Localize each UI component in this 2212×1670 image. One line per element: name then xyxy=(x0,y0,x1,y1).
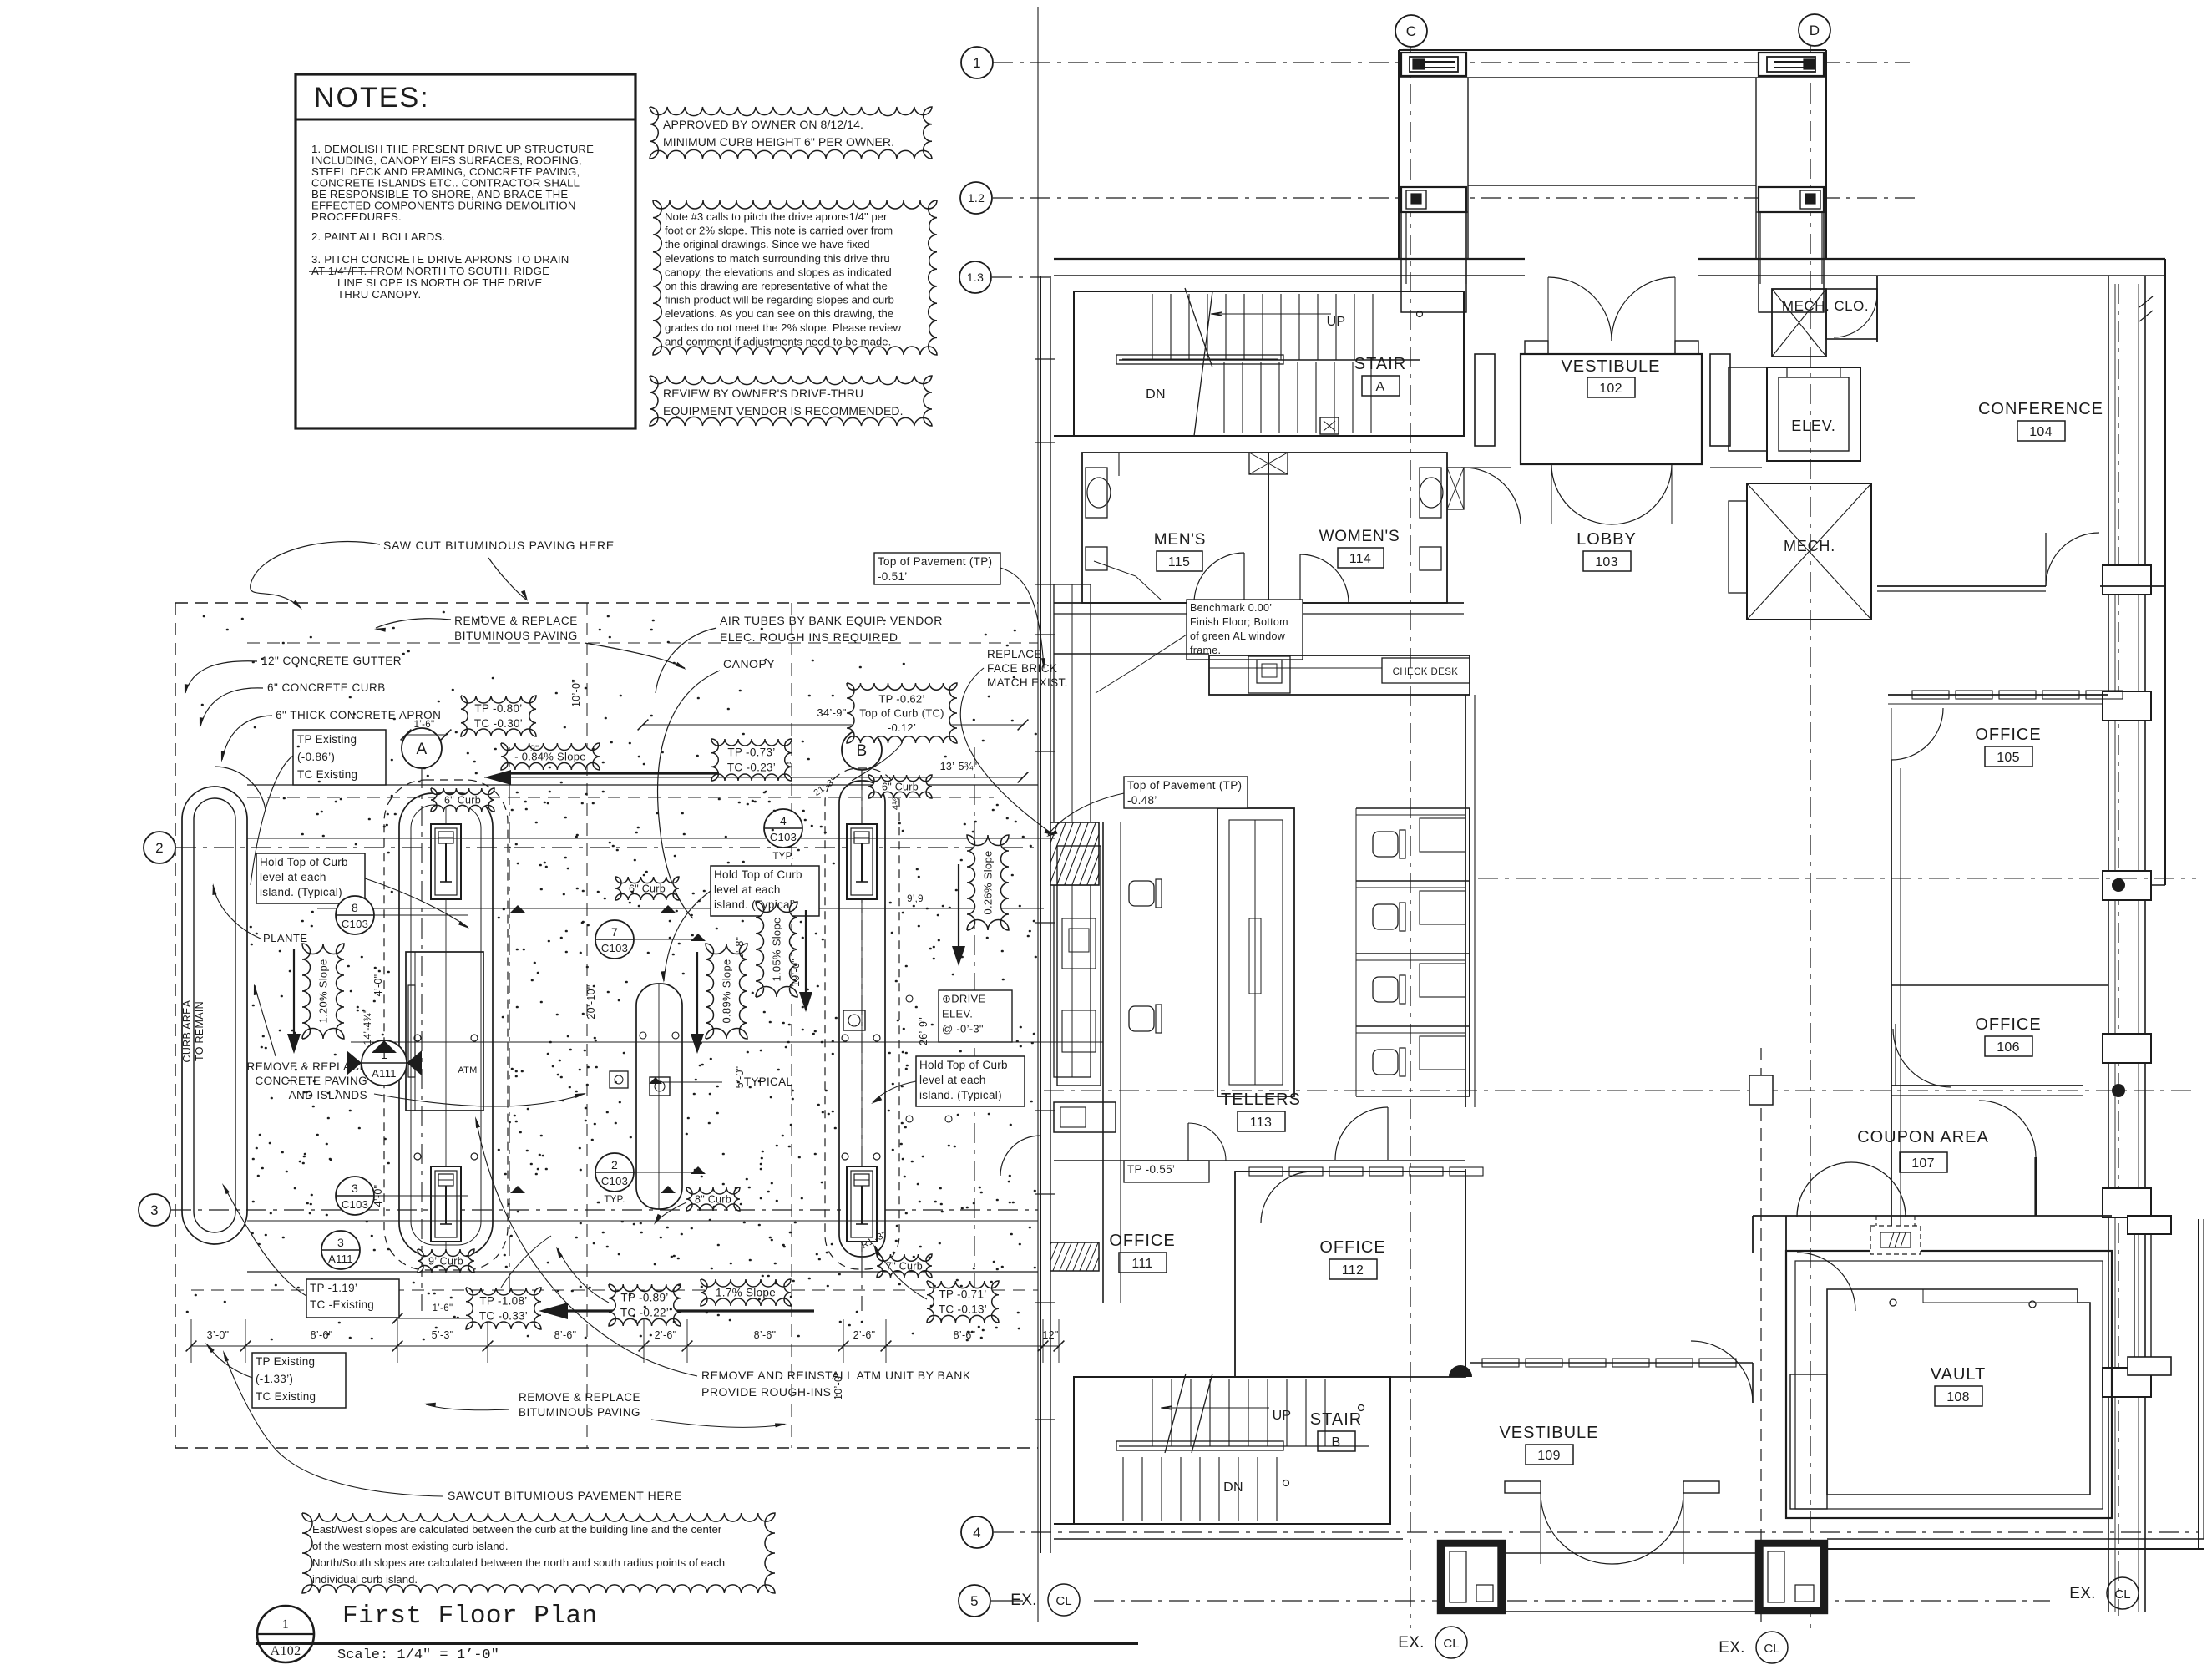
svg-text:frame.: frame. xyxy=(1190,645,1221,656)
svg-text:EX.: EX. xyxy=(1398,1634,1425,1652)
stair B room walls xyxy=(1074,1377,1390,1524)
west storefront wall xyxy=(1040,276,1041,1553)
vault left nook xyxy=(1790,1374,1827,1509)
svg-text:TC -0.13’: TC -0.13’ xyxy=(939,1303,987,1316)
vestibule 102 south doors xyxy=(1551,464,1612,524)
reference marker 2-C103 xyxy=(595,1153,634,1192)
svg-text:9’ Curb: 9’ Curb xyxy=(428,1255,463,1267)
svg-text:TP -0.71’: TP -0.71’ xyxy=(939,1288,986,1301)
second dashed line top xyxy=(247,642,1038,644)
svg-text:Hold Top of Curb: Hold Top of Curb xyxy=(714,868,802,881)
svg-text:B: B xyxy=(1332,1435,1341,1450)
dimension 1-6 island top xyxy=(406,734,446,736)
office 111 door xyxy=(1187,1123,1189,1161)
svg-text:C103: C103 xyxy=(770,831,797,843)
svg-text:level at each: level at each xyxy=(714,883,781,896)
grid line 4 xyxy=(994,1531,2199,1533)
svg-text:-0.51’: -0.51’ xyxy=(878,570,908,583)
svg-text:34’-9": 34’-9" xyxy=(817,706,846,719)
svg-text:112: 112 xyxy=(1342,1263,1364,1278)
small flag markers xyxy=(510,905,525,913)
svg-text:2: 2 xyxy=(611,1158,618,1172)
svg-text:TO REMAIN: TO REMAIN xyxy=(194,1001,205,1061)
office 105 door xyxy=(1891,708,1943,760)
svg-text:ELEV.: ELEV. xyxy=(942,1007,973,1020)
svg-text:4: 4 xyxy=(973,1525,981,1541)
svg-text:EQUIPMENT VENDOR IS RECOMMENDE: EQUIPMENT VENDOR IS RECOMMENDED. xyxy=(663,404,904,417)
tp -071 cloud xyxy=(927,1281,999,1323)
svg-text:(-0.86’): (-0.86’) xyxy=(297,751,335,763)
island A bollard north xyxy=(431,824,461,899)
canopy pier C1 xyxy=(1401,53,1466,76)
grid bubble D xyxy=(1799,14,1830,46)
svg-text:TP Existing: TP Existing xyxy=(256,1355,315,1368)
vault inner chamber xyxy=(1827,1289,2090,1495)
svg-text:108: 108 xyxy=(1946,1390,1970,1404)
svg-text:on this drawing are representa: on this drawing are representative of wh… xyxy=(665,280,888,292)
svg-text:6" Curb: 6" Curb xyxy=(444,794,481,806)
svg-text:EX.: EX. xyxy=(1010,1592,1037,1609)
grid line 3 xyxy=(171,1209,1038,1211)
dimension 34-9 xyxy=(643,724,1023,726)
svg-text:4: 4 xyxy=(780,814,787,827)
tp -080 cloud xyxy=(461,696,536,736)
svg-text:2’-6": 2’-6" xyxy=(655,1329,677,1341)
svg-text:13’-5¾": 13’-5¾" xyxy=(940,761,978,772)
svg-text:CL: CL xyxy=(1443,1637,1459,1651)
stair hall door xyxy=(1464,468,1521,524)
canopy pier C2 xyxy=(1401,187,1466,212)
svg-text:TC -0.23’: TC -0.23’ xyxy=(727,762,776,774)
svg-text:C103: C103 xyxy=(601,1175,628,1187)
6 curb cloud island A xyxy=(431,788,494,812)
slope cloud 105 rotated xyxy=(756,902,797,997)
svg-text:1.7% Slope: 1.7% Slope xyxy=(716,1287,776,1299)
west wall window frames xyxy=(1054,584,1091,822)
svg-text:MEN'S: MEN'S xyxy=(1154,531,1207,549)
island A bollard south xyxy=(431,1166,461,1242)
island B bollard north xyxy=(847,824,877,899)
7 curb cloud xyxy=(877,1254,932,1278)
svg-text:UP: UP xyxy=(1327,315,1346,329)
svg-text:A: A xyxy=(1376,380,1385,394)
svg-text:-0.48’: -0.48’ xyxy=(1127,794,1157,807)
svg-text:7: 7 xyxy=(611,925,618,939)
svg-text:TC -0.33’: TC -0.33’ xyxy=(479,1310,528,1323)
svg-text:PROCEEDURES.: PROCEEDURES. xyxy=(311,210,402,223)
svg-text:AIR TUBES BY BANK EQUIP. VENDO: AIR TUBES BY BANK EQUIP. VENDOR xyxy=(720,614,943,627)
svg-text:3’-0": 3’-0" xyxy=(207,1329,230,1341)
grid line 5 xyxy=(991,1600,1023,1602)
9 curb cloud xyxy=(418,1249,474,1273)
coupon east door leaf xyxy=(2034,1157,2037,1216)
hold top of curb box 3 xyxy=(916,1056,1025,1106)
tellers south partition xyxy=(1054,1160,1465,1161)
lobby west closet walls xyxy=(1729,367,1767,451)
svg-text:STAIR: STAIR xyxy=(1310,1410,1362,1429)
svg-text:6" Curb: 6" Curb xyxy=(882,781,919,792)
svg-text:EX.: EX. xyxy=(2069,1585,2096,1602)
island A centerline xyxy=(445,793,447,1257)
svg-text:@ -0’-3": @ -0’-3" xyxy=(942,1022,984,1035)
centerline through offices xyxy=(1478,878,2196,879)
svg-text:5: 5 xyxy=(970,1593,979,1609)
lobby south wall / check desk counter xyxy=(1054,653,1209,655)
svg-text:canopy, the elevations and slo: canopy, the elevations and slopes as ind… xyxy=(665,266,892,278)
stair B rail xyxy=(1116,1441,1283,1450)
svg-text:BITUMINOUS PAVING: BITUMINOUS PAVING xyxy=(454,630,578,642)
svg-text:VESTIBULE: VESTIBULE xyxy=(1499,1424,1598,1442)
grid bubble 4 xyxy=(961,1516,993,1548)
svg-text:Hold Top of Curb: Hold Top of Curb xyxy=(919,1059,1008,1071)
east band pier dots xyxy=(2112,878,2125,892)
column line A vertical xyxy=(421,768,423,1311)
svg-text:6" Curb: 6" Curb xyxy=(629,883,666,894)
slope arrow 120 xyxy=(293,949,295,1044)
canopy pier D1 xyxy=(1759,53,1824,76)
svg-text:AND ISLANDS: AND ISLANDS xyxy=(289,1089,367,1101)
dimension 24-9 slope arrow xyxy=(484,777,1023,778)
svg-text:level at each: level at each xyxy=(919,1074,986,1086)
grid line 1 xyxy=(993,62,1910,63)
svg-text:26’-9": 26’-9" xyxy=(918,1017,929,1045)
svg-text:CL: CL xyxy=(1764,1642,1779,1656)
svg-text:REPLACE: REPLACE xyxy=(987,648,1042,660)
office 106 south wall xyxy=(1891,1085,2083,1086)
island B curb xyxy=(839,781,885,1257)
svg-text:103: 103 xyxy=(1595,555,1618,569)
vestibule 109 south wall doors xyxy=(1505,1481,1541,1493)
svg-text:12": 12" xyxy=(1042,1329,1058,1341)
column line B vertical xyxy=(861,770,863,1311)
remote unit square xyxy=(843,1010,865,1030)
dimension 1-6 bottom xyxy=(397,1318,488,1319)
svg-text:TYP.: TYP. xyxy=(772,852,793,862)
island B dots xyxy=(842,1035,848,1041)
svg-text:TP -1.19’: TP -1.19’ xyxy=(310,1282,357,1294)
svg-text:PROVIDE ROUGH-INS .: PROVIDE ROUGH-INS . xyxy=(701,1385,838,1399)
grid bubble 2 xyxy=(144,832,175,863)
6 curb cloud island B xyxy=(868,775,932,798)
TP -0.55 annotation xyxy=(1124,1161,1209,1182)
svg-text:TC -0.30’: TC -0.30’ xyxy=(474,717,523,730)
grid line 2 xyxy=(176,847,1038,848)
svg-text:COUPON AREA: COUPON AREA xyxy=(1857,1128,1989,1146)
svg-text:1: 1 xyxy=(973,55,981,71)
apron bottom edge xyxy=(247,1271,1038,1273)
svg-text:THRU CANOPY.: THRU CANOPY. xyxy=(337,288,421,301)
svg-text:A111: A111 xyxy=(328,1252,353,1265)
lobby door to tellers xyxy=(1335,1107,1388,1160)
conference south wall xyxy=(1877,585,2046,587)
svg-text:ELEC. ROUGH INS REQUIRED: ELEC. ROUGH INS REQUIRED xyxy=(720,630,898,644)
svg-text:grades do not meet the 2% slop: grades do not meet the 2% slope. Please … xyxy=(665,321,901,334)
svg-text:First Floor Plan: First Floor Plan xyxy=(342,1602,598,1631)
svg-text:TELLERS: TELLERS xyxy=(1221,1091,1301,1109)
vault interior dots xyxy=(1890,1299,1896,1306)
island row line atm xyxy=(351,1041,1103,1043)
grid bubble C xyxy=(1395,15,1427,47)
svg-text:Finish Floor; Bottom: Finish Floor; Bottom xyxy=(1190,616,1288,628)
svg-text:9’,9: 9’,9 xyxy=(907,894,924,904)
svg-text:A111: A111 xyxy=(372,1067,397,1080)
tp existing -133 box xyxy=(252,1353,346,1408)
canopy dash outline xyxy=(509,747,510,1301)
restroom walls xyxy=(1082,453,1268,603)
canopy pier D2 xyxy=(1759,187,1824,212)
svg-text:East/West slopes are calculate: East/West slopes are calculated between … xyxy=(312,1523,722,1536)
svg-text:10’-0": 10’-0" xyxy=(570,679,582,707)
svg-text:CHECK DESK: CHECK DESK xyxy=(1393,667,1459,677)
svg-text:-0.12’: -0.12’ xyxy=(888,721,916,734)
apron top edge xyxy=(247,784,1038,786)
review-by-vendor cloud note xyxy=(650,376,932,426)
svg-text:C: C xyxy=(1406,23,1417,39)
svg-text:Benchmark 0.00’: Benchmark 0.00’ xyxy=(1190,602,1272,614)
mens fixtures xyxy=(1086,468,1107,518)
grid line D vertical xyxy=(1810,46,1811,1628)
grid bubble B xyxy=(842,730,882,770)
vault outer walls xyxy=(1786,1251,2112,1518)
svg-text:111: 111 xyxy=(1131,1257,1152,1271)
south east wing wall xyxy=(1827,1538,2204,1540)
svg-text:113: 113 xyxy=(1250,1116,1272,1130)
svg-text:8’-6": 8’-6" xyxy=(554,1329,577,1341)
svg-text:Scale: 1/4" = 1’-0": Scale: 1/4" = 1’-0" xyxy=(337,1647,499,1663)
mens door xyxy=(1194,553,1244,603)
svg-text:0.89% Slope: 0.89% Slope xyxy=(721,959,733,1023)
svg-text:12" CONCRETE GUTTER: 12" CONCRETE GUTTER xyxy=(261,655,402,667)
island B dashed removal outline xyxy=(825,768,899,1269)
svg-text:3. PITCH CONCRETE DRIVE APRONS: 3. PITCH CONCRETE DRIVE APRONS TO DRAIN xyxy=(311,253,569,266)
svg-text:OFFICE: OFFICE xyxy=(1109,1232,1175,1250)
south entrance threshold xyxy=(1505,1552,1756,1554)
svg-text:A102: A102 xyxy=(271,1644,301,1658)
reference marker 7-C103 xyxy=(595,920,634,959)
svg-text:114: 114 xyxy=(1349,552,1371,566)
stair A treads lower xyxy=(1223,362,1225,433)
vestibule 102 north doors xyxy=(1525,341,1548,354)
svg-text:UP: UP xyxy=(1273,1409,1292,1423)
east outer wall conference xyxy=(2164,259,2166,885)
closet xyxy=(1826,289,1877,339)
svg-text:109: 109 xyxy=(1537,1449,1561,1463)
svg-text:REMOVE & REPLACE: REMOVE & REPLACE xyxy=(454,615,578,627)
svg-text:- 0.84% Slope: - 0.84% Slope xyxy=(514,751,586,763)
approved-by-owner cloud note xyxy=(650,107,932,159)
8 curb cloud xyxy=(686,1187,740,1211)
tp -089 cloud xyxy=(609,1284,681,1326)
teller counter island xyxy=(1217,808,1294,1096)
reference marker 4-C103 xyxy=(764,809,802,848)
svg-text:B: B xyxy=(857,742,868,760)
svg-text:North/South slopes are calcula: North/South slopes are calculated betwee… xyxy=(312,1556,725,1569)
elevator xyxy=(1767,367,1860,461)
island A dashed removal outline xyxy=(384,780,508,1270)
svg-text:TP -0.73’: TP -0.73’ xyxy=(727,746,775,759)
stair B break line xyxy=(1165,1374,1186,1453)
svg-text:Top of Pavement (TP): Top of Pavement (TP) xyxy=(878,555,992,568)
svg-text:MATCH EXIST.: MATCH EXIST. xyxy=(987,676,1068,689)
svg-text:Top of Pavement (TP): Top of Pavement (TP) xyxy=(1127,779,1242,792)
teller stations partitions xyxy=(1356,807,1470,809)
office 105-106 west wall xyxy=(1891,760,1892,1241)
island A bollard dots xyxy=(414,1035,421,1041)
svg-text:CONCRETE PAVING: CONCRETE PAVING xyxy=(255,1075,367,1087)
building centerline row 3 xyxy=(1044,1090,2196,1091)
grid bubble 1.2 xyxy=(960,182,992,214)
svg-text:TC -Existing: TC -Existing xyxy=(310,1298,374,1311)
hold top of curb box 1 xyxy=(256,853,365,903)
svg-text:1.2: 1.2 xyxy=(968,191,985,205)
slope arrow 026 xyxy=(958,864,959,956)
island row line top xyxy=(247,838,1055,839)
south entrance pier east xyxy=(1756,1541,1827,1613)
note #3 narrative cloud note xyxy=(653,200,937,355)
svg-text:ELEV.: ELEV. xyxy=(1791,417,1835,434)
grid bubble 1 xyxy=(961,47,993,78)
svg-text:4’-0": 4’-0" xyxy=(372,974,384,997)
svg-text:WOMEN'S: WOMEN'S xyxy=(1319,528,1400,545)
svg-text:finish product will be regardi: finish product will be regarding slopes … xyxy=(665,294,894,306)
svg-text:TC Existing: TC Existing xyxy=(256,1390,316,1403)
svg-text:TYP.: TYP. xyxy=(604,1195,625,1205)
existing centerline EX west xyxy=(1037,7,1039,1622)
pier square on centerline xyxy=(1749,1075,1773,1105)
vestibule 109 walls xyxy=(1470,1362,1753,1364)
svg-text:3: 3 xyxy=(352,1182,358,1195)
svg-text:OFFICE: OFFICE xyxy=(1975,726,2041,744)
south east corner pier xyxy=(2128,1216,2171,1234)
tp -073 cloud xyxy=(711,739,792,781)
island row line mid xyxy=(317,908,1044,909)
svg-text:6" CONCRETE CURB: 6" CONCRETE CURB xyxy=(267,681,386,694)
svg-text:individual curb island.: individual curb island. xyxy=(312,1573,418,1586)
vault door swing xyxy=(1797,1252,1855,1311)
svg-text:106: 106 xyxy=(1997,1040,2020,1055)
svg-text:ATM: ATM xyxy=(458,1065,477,1075)
svg-text:CONFERENCE: CONFERENCE xyxy=(1978,400,2103,418)
stair A break line xyxy=(1185,288,1212,367)
svg-text:2’-6": 2’-6" xyxy=(853,1329,876,1341)
svg-text:CURB AREA: CURB AREA xyxy=(181,999,193,1062)
slope cloud 17 xyxy=(701,1279,791,1306)
drive lane vertical reference xyxy=(586,603,588,1448)
svg-text:1.3: 1.3 xyxy=(967,271,984,284)
hold top of curb box 2 xyxy=(711,866,819,916)
east band piers xyxy=(2103,565,2151,595)
svg-text:the original drawings. Since: the original drawings. Since we have fix… xyxy=(665,238,870,250)
slope arrow 105 xyxy=(805,910,807,1002)
tp -119 box xyxy=(306,1279,399,1318)
grid bubble 1.3 xyxy=(959,261,991,293)
east window band centerline xyxy=(2118,284,2119,1616)
stair A landing door symbol xyxy=(1320,417,1339,434)
benchmark annotation xyxy=(1187,600,1303,660)
svg-text:2. PAINT ALL BOLLARDS.: 2. PAINT ALL BOLLARDS. xyxy=(311,230,445,243)
womens door xyxy=(1300,554,1349,603)
svg-text:8’-6": 8’-6" xyxy=(754,1329,777,1341)
canopy side walls lower xyxy=(1401,212,1466,312)
east wing window lower xyxy=(2134,1234,2135,1361)
svg-text:MINIMUM CURB HEIGHT 6" PER OWN: MINIMUM CURB HEIGHT 6" PER OWNER. xyxy=(663,135,894,149)
curb oval to remain xyxy=(182,787,247,1244)
svg-text:5’-3": 5’-3" xyxy=(432,1329,454,1341)
reference marker 1-A111 xyxy=(362,1040,407,1085)
teller lobby rail xyxy=(1469,808,1470,1096)
svg-text:102: 102 xyxy=(1599,382,1622,396)
svg-text:LOBBY: LOBBY xyxy=(1577,530,1637,549)
check desk label xyxy=(1382,658,1470,683)
svg-text:4½": 4½" xyxy=(891,793,901,810)
stair A treads upper xyxy=(1152,294,1153,360)
6 curb cloud mid xyxy=(615,877,679,900)
conference west wall xyxy=(1876,276,1878,342)
island mid curb xyxy=(636,984,682,1209)
grid bubble A xyxy=(402,728,442,768)
svg-text:C103: C103 xyxy=(342,1198,368,1211)
reference marker 3-A111 xyxy=(321,1231,360,1269)
dimension 10-0 vertical xyxy=(586,618,588,785)
slope arrow 17 xyxy=(551,1309,814,1312)
stair A center rail xyxy=(1116,355,1283,364)
slope cloud 120 rotated xyxy=(302,944,344,1039)
svg-text:104: 104 xyxy=(2029,425,2053,439)
svg-text:TYPICAL: TYPICAL xyxy=(744,1075,793,1088)
svg-text:CL: CL xyxy=(2114,1587,2130,1602)
stair B treads xyxy=(1152,1379,1153,1446)
lobby east wall xyxy=(1465,695,1466,1107)
north wall xyxy=(1054,258,1525,260)
vestibule 102 entry side panels xyxy=(1475,354,1495,446)
svg-text:0.26% Slope: 0.26% Slope xyxy=(982,850,995,914)
office partition 105-106 xyxy=(1891,984,2108,986)
svg-text:1’-6": 1’-6" xyxy=(433,1303,453,1313)
svg-text:TP -0.89’: TP -0.89’ xyxy=(620,1292,668,1304)
title underline xyxy=(256,1642,1138,1645)
vestibule entry walk lines xyxy=(1461,467,1511,468)
notes box frame xyxy=(296,74,635,428)
north canopy outline xyxy=(1399,49,1826,51)
ATM unit xyxy=(406,952,483,1111)
tp -062 cloud xyxy=(847,683,957,743)
svg-text:NOTES:: NOTES: xyxy=(314,82,430,114)
mech room xyxy=(1747,483,1871,620)
svg-text:TP -0.55’: TP -0.55’ xyxy=(1127,1163,1175,1176)
island row line bottom xyxy=(247,1220,1038,1222)
svg-text:8" Curb: 8" Curb xyxy=(695,1193,731,1205)
slope cloud 084 xyxy=(501,743,600,770)
svg-text:PLANTE: PLANTE xyxy=(263,932,308,944)
svg-text:1: 1 xyxy=(282,1617,289,1632)
svg-text:Note #3 calls to pitch the dri: Note #3 calls to pitch the drive aprons1… xyxy=(665,210,888,223)
svg-text:TP Existing: TP Existing xyxy=(297,733,357,746)
womens fixtures xyxy=(1420,468,1441,518)
svg-text:OFFICE: OFFICE xyxy=(1319,1238,1385,1257)
svg-text:107: 107 xyxy=(1911,1156,1935,1171)
vestibule 109 east door xyxy=(1691,1341,1753,1403)
svg-text:and comment if adjustments nee: and comment if adjustments need to be ma… xyxy=(665,335,891,347)
svg-text:VAULT: VAULT xyxy=(1931,1365,1987,1384)
svg-text:LINE SLOPE IS NORTH OF THE DRI: LINE SLOPE IS NORTH OF THE DRIVE xyxy=(337,276,543,289)
drive elev box xyxy=(939,990,1012,1042)
island A curb xyxy=(399,793,493,1257)
svg-text:island. (Typical): island. (Typical) xyxy=(919,1089,1002,1101)
svg-text:OFFICE: OFFICE xyxy=(1975,1015,2041,1034)
svg-text:island. (Typical): island. (Typical) xyxy=(260,886,342,898)
island mid pedestal2 xyxy=(610,1071,628,1088)
svg-text:APPROVED BY OWNER ON 8/12/14.: APPROVED BY OWNER ON 8/12/14. xyxy=(663,118,863,131)
